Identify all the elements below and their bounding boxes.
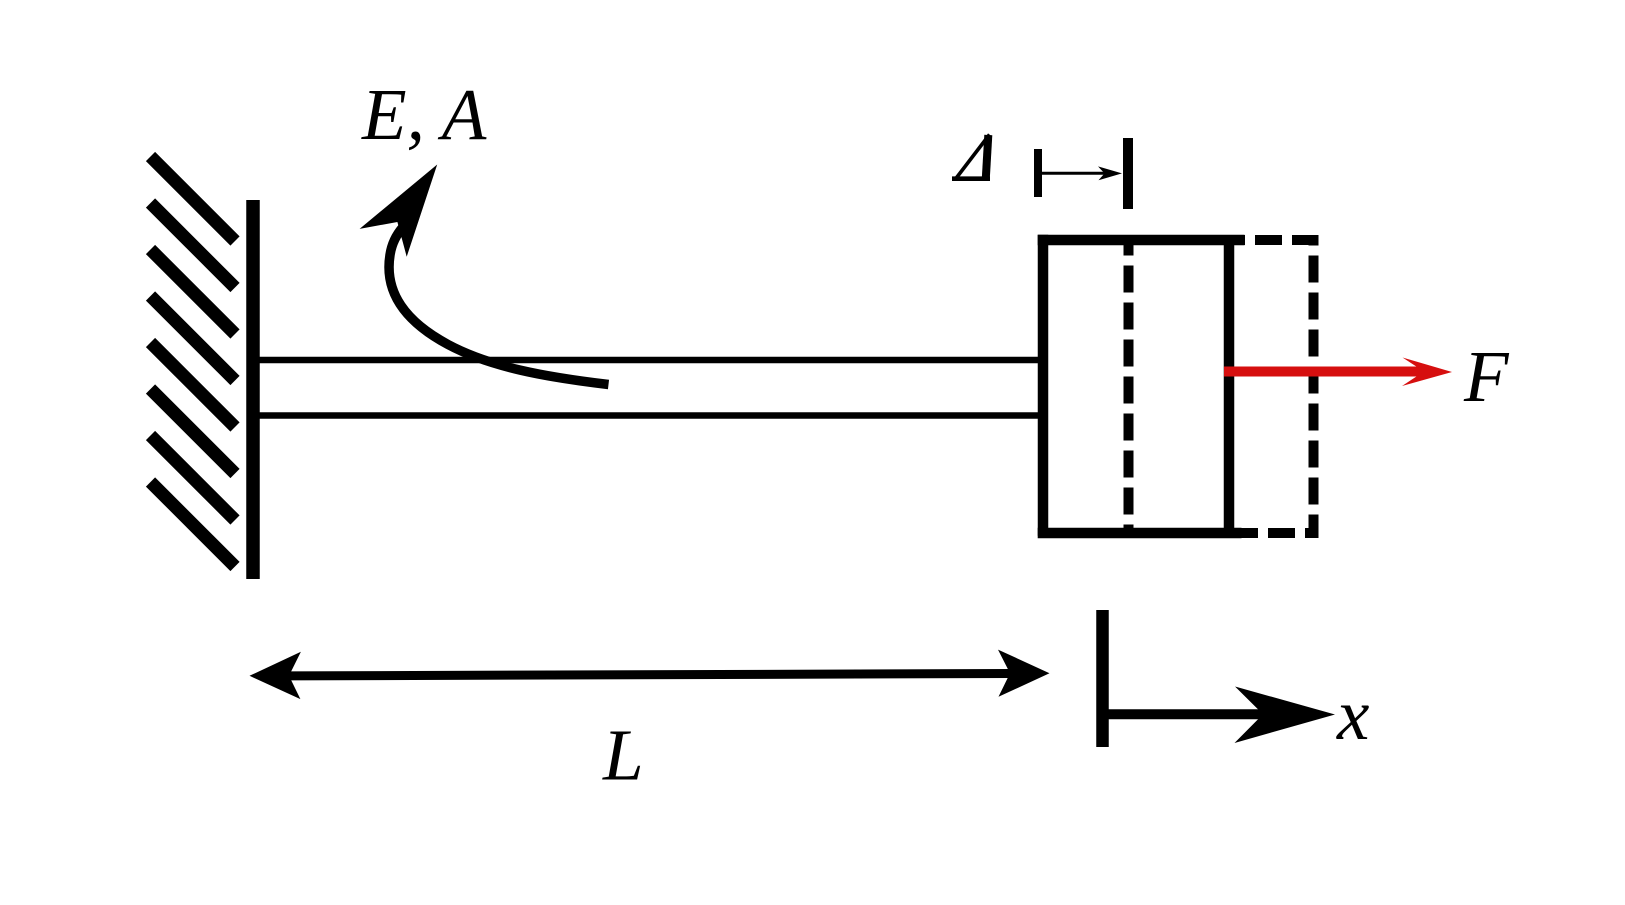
delta dimension arrow line (1041, 172, 1112, 175)
svg-text:F: F (1463, 336, 1510, 417)
force F red arrowhead (1402, 358, 1452, 387)
delta dimension arrowhead (1098, 166, 1122, 180)
wall hatch stroke 7 (151, 436, 236, 521)
wall hatch stroke 3 (151, 250, 236, 335)
curved pointer arrowhead (360, 165, 438, 257)
svg-text:E, A: E, A (361, 74, 487, 155)
curved pointer arrow shaft (389, 227, 608, 385)
length L dimension line (287, 674, 1011, 676)
block solid right edge (1224, 235, 1235, 538)
x axis arrow line (1103, 709, 1281, 719)
displaced block dashed outline (1129, 240, 1314, 533)
wall hatch stroke 4 (151, 296, 236, 381)
block solid left edge (1038, 235, 1049, 536)
delta dimension right tall tick (1123, 138, 1133, 209)
svg-text:x: x (1336, 674, 1369, 755)
wall hatch stroke 5 (151, 343, 236, 428)
L left arrowhead (250, 652, 301, 699)
wall hatch stroke 8 (151, 482, 236, 567)
wall hatch stroke 1 (151, 157, 236, 242)
wall hatch stroke 2 (151, 203, 236, 288)
label delta (italic triangle glyph) (952, 135, 990, 180)
svg-text:L: L (602, 715, 644, 796)
delta dimension left tick (1034, 149, 1042, 197)
wall hatch stroke 6 (151, 389, 236, 474)
x axis origin tick (1096, 610, 1109, 747)
bar bottom edge (258, 412, 1040, 419)
block solid bottom edge (1038, 528, 1242, 538)
block solid top edge (1038, 235, 1245, 245)
force F red arrow line (1224, 367, 1428, 377)
fixed wall vertical line (246, 200, 260, 579)
L right arrowhead (998, 650, 1050, 697)
bar top edge (258, 357, 1040, 364)
x axis arrowhead (1235, 687, 1336, 744)
